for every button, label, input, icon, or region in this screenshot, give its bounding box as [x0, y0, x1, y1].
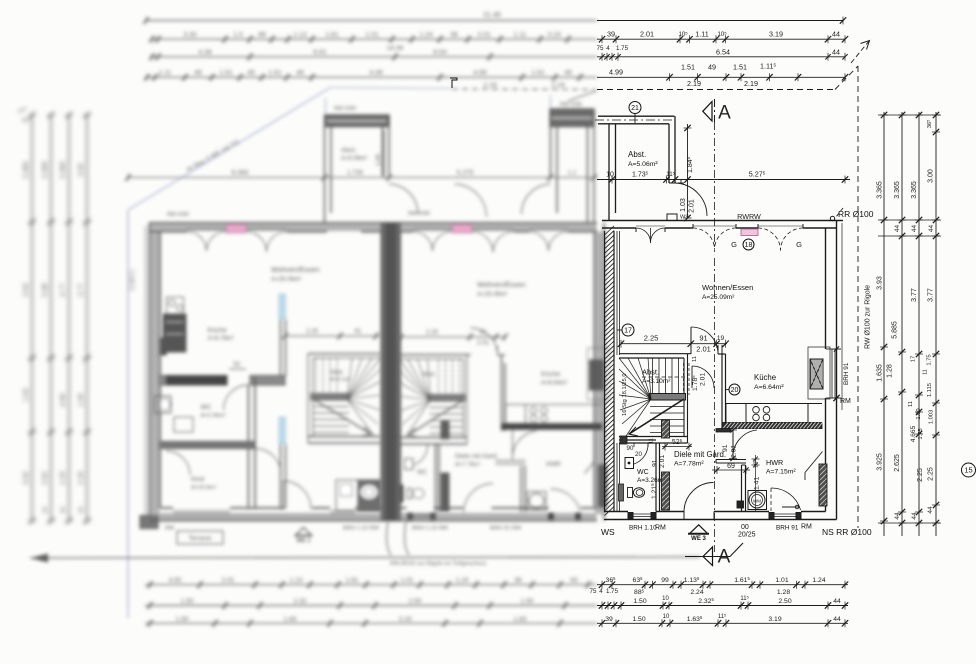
svg-text:WM: WM — [753, 499, 761, 504]
svg-text:6.065: 6.065 — [231, 170, 248, 177]
svg-text:44: 44 — [832, 47, 840, 56]
svg-text:5.275: 5.275 — [456, 170, 473, 177]
chimney chamfer — [805, 452, 823, 473]
svg-text:75: 75 — [597, 45, 604, 52]
svg-text:49: 49 — [708, 63, 716, 72]
svg-text:44: 44 — [78, 506, 85, 513]
kitchen wall (Wohnen|Kueche) — [721, 354, 723, 430]
wall notch above top wall — [667, 214, 677, 221]
svg-text:4: 4 — [606, 45, 610, 52]
dim chain row0 total, top — [597, 17, 846, 25]
left unit WC cluster at party wall — [336, 480, 358, 511]
installation wall bar WC — [619, 484, 624, 501]
duplex left wall — [149, 223, 151, 521]
svg-text:91: 91 — [699, 334, 707, 343]
svg-text:11: 11 — [649, 438, 655, 444]
svg-text:A=2.96m²: A=2.96m² — [201, 413, 226, 419]
svg-text:BRH 1.10 RM: BRH 1.10 RM — [412, 526, 448, 532]
svg-text:2.01: 2.01 — [477, 32, 490, 39]
svg-text:3.77: 3.77 — [911, 288, 918, 302]
svg-text:19: 19 — [717, 335, 725, 342]
right dim chain 4 — [923, 112, 941, 536]
left unit hall walls — [248, 385, 250, 508]
svg-text:1.00: 1.00 — [78, 393, 85, 407]
svg-text:1.50: 1.50 — [632, 616, 645, 623]
left unit kitchen — [167, 297, 184, 314]
svg-text:52: 52 — [234, 361, 241, 368]
svg-text:2.24: 2.24 — [690, 589, 703, 596]
svg-text:3.92: 3.92 — [23, 471, 30, 485]
svg-text:2.19: 2.19 — [744, 79, 758, 88]
svg-text:20/25: 20/25 — [738, 532, 756, 539]
svg-text:1.003: 1.003 — [929, 410, 935, 425]
svg-text:1.75: 1.75 — [918, 428, 924, 439]
right dim chain 2 — [887, 112, 907, 536]
svg-text:49: 49 — [296, 70, 304, 77]
svg-text:2.19: 2.19 — [551, 82, 564, 89]
toilet — [628, 488, 633, 498]
svg-text:5.88: 5.88 — [42, 283, 49, 297]
left unit annex — [325, 115, 390, 127]
right outer wall — [836, 221, 838, 520]
thin sill lines in top wall openings — [636, 225, 665, 227]
dim 69 — [712, 463, 750, 474]
top connector ticks of right chains — [878, 114, 941, 116]
svg-text:RR Ø100: RR Ø100 — [838, 209, 874, 219]
left wall bottom pier — [140, 516, 158, 529]
svg-text:6.91: 6.91 — [313, 49, 326, 56]
svg-text:2.01: 2.01 — [640, 30, 654, 39]
bottom dim row 2 — [597, 595, 848, 609]
svg-text:BRH 91 RM: BRH 91 RM — [490, 526, 521, 532]
svg-text:11: 11 — [692, 356, 698, 362]
svg-text:A=7.15m²: A=7.15m² — [766, 469, 796, 476]
svg-text:1.115: 1.115 — [927, 383, 933, 397]
svg-text:2.01: 2.01 — [700, 373, 707, 386]
terrace door opening C dashed arcs — [757, 224, 759, 228]
small dims 75/4/1.75 below row A — [597, 45, 629, 52]
svg-text:2.50: 2.50 — [778, 598, 791, 605]
svg-text:RM 0/90: RM 0/90 — [167, 212, 189, 218]
svg-text:2.25: 2.25 — [60, 471, 67, 485]
svg-text:1.01: 1.01 — [401, 577, 414, 584]
svg-text:Abst.: Abst. — [330, 369, 344, 376]
circled 17 — [622, 324, 634, 336]
svg-text:1.50: 1.50 — [181, 598, 194, 605]
svg-text:RM: RM — [165, 526, 174, 532]
stove 4 plates — [746, 404, 808, 423]
stair winder fan — [619, 358, 651, 436]
svg-text:3.00: 3.00 — [928, 169, 935, 183]
svg-text:44: 44 — [911, 225, 918, 233]
right-unit annex — [550, 109, 594, 127]
svg-text:17: 17 — [911, 356, 917, 362]
right dim chain 1 — [877, 112, 889, 536]
bottom dim row 1 — [590, 576, 849, 596]
svg-text:9.365 5: 9.365 5 — [129, 269, 136, 290]
bottom window 2 (HWR door) — [769, 513, 801, 515]
WE 3 marker — [690, 525, 707, 533]
svg-text:99: 99 — [661, 577, 669, 584]
blurry top dim rows — [143, 12, 597, 89]
svg-text:WC: WC — [417, 470, 428, 476]
svg-text:2.50: 2.50 — [409, 598, 422, 605]
svg-text:2.32: 2.32 — [294, 598, 307, 605]
svg-text:91: 91 — [480, 330, 487, 336]
svg-text:2.01: 2.01 — [222, 577, 235, 584]
stair treads upper flight (dashed=above cut) — [642, 354, 689, 443]
svg-text:Abst.: Abst. — [642, 368, 659, 377]
drain circle + RR100 at top right corner — [830, 216, 834, 220]
svg-text:90: 90 — [627, 445, 634, 452]
svg-text:1.63: 1.63 — [514, 616, 527, 623]
svg-text:3.365: 3.365 — [911, 181, 918, 199]
svg-text:2.62: 2.62 — [42, 471, 49, 485]
dashed site boundary with NE arrow — [597, 41, 870, 529]
svg-text:36: 36 — [514, 577, 522, 584]
svg-text:3.19: 3.19 — [547, 32, 560, 39]
svg-text:A=25.09m²: A=25.09m² — [477, 291, 507, 298]
svg-text:2.25: 2.25 — [426, 329, 439, 336]
svg-text:99: 99 — [258, 32, 266, 39]
dim 2.25/91/19 + 2.01 — [618, 334, 729, 354]
svg-text:3.365: 3.365 — [23, 161, 30, 179]
main top wall — [602, 220, 843, 222]
svg-text:BRH 1.10 RM: BRH 1.10 RM — [343, 526, 379, 532]
svg-text:2.01: 2.01 — [696, 345, 711, 354]
party wall hatched — [605, 226, 620, 516]
svg-text:44: 44 — [928, 225, 935, 233]
Wohnen-Diele door leaf + arc — [690, 327, 692, 354]
right unit mid dim line — [397, 329, 508, 347]
svg-text:1.63: 1.63 — [23, 388, 30, 402]
long bottom leader arrow — [30, 557, 700, 558]
svg-text:4x: 4x — [22, 117, 30, 124]
dim line y178 (10/1.735/115/5.275) — [597, 170, 850, 184]
svg-text:2.25: 2.25 — [78, 471, 85, 485]
svg-text:3.365: 3.365 — [894, 181, 901, 199]
svg-text:44: 44 — [911, 512, 918, 520]
wall grey fills — [150, 224, 597, 232]
washing machine — [748, 491, 767, 510]
svg-text:3.19: 3.19 — [399, 616, 412, 623]
svg-text:WE 3: WE 3 — [691, 536, 706, 542]
svg-text:3.365: 3.365 — [42, 161, 49, 179]
svg-text:44: 44 — [894, 225, 901, 233]
svg-text:3.19: 3.19 — [768, 616, 781, 623]
svg-text:1.50: 1.50 — [633, 598, 646, 605]
svg-text:1.0: 1.0 — [233, 32, 243, 39]
svg-text:Abst.: Abst. — [422, 371, 436, 378]
garderobe niche wall — [716, 459, 746, 461]
svg-text:1.11: 1.11 — [159, 70, 172, 77]
door under stair + arc — [691, 366, 693, 388]
dim chain row B (6.54/44) — [597, 47, 848, 61]
svg-text:Diele mit Gard.: Diele mit Gard. — [455, 453, 499, 460]
svg-text:2.25: 2.25 — [306, 328, 319, 335]
svg-text:1.13: 1.13 — [290, 577, 303, 584]
small corner mark — [450, 78, 457, 88]
wall below stair (Abst/WC) — [619, 436, 688, 438]
svg-text:HWR: HWR — [766, 458, 783, 467]
svg-text:10: 10 — [662, 596, 669, 602]
left unit door arcs — [224, 385, 249, 410]
left unit wall under kitchen (hatched) — [160, 376, 227, 386]
svg-text:RM 0/90: RM 0/90 — [334, 106, 356, 112]
svg-text:14.36: 14.36 — [387, 45, 404, 52]
roller shutter box (pink) — [741, 229, 758, 236]
drain pipes under wall — [387, 521, 391, 555]
svg-text:Wohnen/Essen: Wohnen/Essen — [271, 265, 320, 274]
svg-text:3.93: 3.93 — [23, 283, 30, 297]
terrace label box — [177, 531, 223, 544]
svg-text:1.61: 1.61 — [346, 577, 359, 584]
svg-text:A=7.78m²: A=7.78m² — [455, 462, 480, 468]
svg-text:A=5.06m²: A=5.06m² — [628, 161, 658, 168]
svg-text:2.19: 2.19 — [483, 82, 496, 89]
svg-text:WS.: WS. — [680, 215, 691, 221]
WE marker left unit — [296, 528, 311, 536]
svg-text:1.50: 1.50 — [176, 616, 189, 623]
svg-text:39: 39 — [607, 30, 615, 39]
svg-text:2.25: 2.25 — [644, 334, 659, 343]
circled 15 — [962, 463, 976, 477]
stair treads lower flight — [650, 407, 684, 433]
svg-text:RW Ø100 zur Rigole im Tiefgesc: RW Ø100 zur Rigole im Tiefgeschoss — [390, 561, 486, 567]
svg-text:1.11: 1.11 — [514, 32, 527, 39]
svg-text:91: 91 — [722, 444, 729, 452]
svg-text:A=3.1m²: A=3.1m² — [330, 377, 351, 383]
svg-text:63: 63 — [570, 577, 578, 584]
WC door + arc — [633, 443, 635, 447]
duplex top wall — [150, 222, 598, 224]
svg-text:RM: RM — [840, 398, 851, 405]
svg-text:A: A — [718, 547, 731, 568]
svg-text:1.635: 1.635 — [877, 364, 884, 382]
svg-text:Wohnen/Essen: Wohnen/Essen — [702, 283, 753, 292]
svg-text:BRH 91: BRH 91 — [776, 525, 799, 532]
svg-text:1.41: 1.41 — [754, 477, 761, 490]
svg-text:17: 17 — [624, 328, 632, 335]
svg-text:3.77: 3.77 — [60, 283, 67, 297]
svg-text:WC: WC — [201, 404, 212, 411]
fridge / tall unit — [808, 347, 830, 399]
left unit installation bar — [160, 338, 167, 355]
svg-text:WC: WC — [637, 469, 649, 476]
svg-text:5.885: 5.885 — [892, 321, 899, 339]
svg-text:20: 20 — [635, 451, 642, 458]
circled 21 position number — [629, 102, 641, 114]
garderobe bars — [662, 420, 670, 438]
right unit right wall (at sharp boundary) — [594, 232, 596, 508]
svg-text:1.24: 1.24 — [812, 577, 825, 584]
top wall window arcs right unit — [413, 232, 433, 251]
svg-text:1.01: 1.01 — [365, 32, 378, 39]
svg-text:49: 49 — [247, 70, 255, 77]
svg-text:3.30: 3.30 — [183, 32, 196, 39]
svg-text:G: G — [731, 240, 737, 249]
svg-text:1.63: 1.63 — [284, 616, 297, 623]
svg-text:2.01: 2.01 — [731, 445, 738, 458]
svg-text:1.24: 1.24 — [456, 577, 469, 584]
svg-text:1.75: 1.75 — [927, 354, 933, 365]
svg-text:Terrasse: Terrasse — [188, 536, 212, 542]
svg-text:3.365: 3.365 — [60, 161, 67, 179]
stair enclosure top wall + door to Wohnen — [619, 353, 691, 355]
svg-text:75: 75 — [590, 588, 597, 595]
svg-text:4.50: 4.50 — [169, 577, 182, 584]
svg-text:A=7.78m²: A=7.78m² — [674, 461, 704, 468]
svg-text:1.84: 1.84 — [375, 153, 382, 166]
bottom window 1 (WC) — [628, 513, 656, 515]
dim 52.5 — [662, 438, 692, 451]
svg-text:15: 15 — [964, 466, 972, 475]
floor drain block — [737, 501, 744, 508]
svg-text:6.54: 6.54 — [716, 47, 730, 56]
annex left wall — [608, 124, 610, 220]
svg-text:4.99: 4.99 — [473, 70, 486, 77]
svg-text:49: 49 — [564, 70, 572, 77]
washbasin — [625, 458, 634, 469]
svg-text:39: 39 — [605, 616, 613, 623]
svg-text:3.93: 3.93 — [877, 276, 884, 290]
svg-text:1.28: 1.28 — [887, 364, 894, 378]
svg-text:RWRW: RWRW — [737, 212, 761, 221]
duplex bottom wall — [150, 520, 598, 522]
svg-text:Küche: Küche — [541, 371, 560, 378]
party wall dark band — [381, 223, 401, 521]
svg-text:36: 36 — [450, 32, 458, 39]
svg-text:1.28: 1.28 — [777, 589, 790, 596]
stair landing bar — [649, 394, 686, 401]
svg-text:1.01: 1.01 — [775, 577, 788, 584]
svg-text:NS RR Ø100: NS RR Ø100 — [822, 527, 872, 537]
blurry bottom dim rows — [145, 577, 597, 627]
svg-text:A=10.9m²: A=10.9m² — [191, 485, 216, 491]
top wall window opening A with solid arcs — [635, 228, 637, 232]
svg-text:Kind: Kind — [191, 476, 204, 483]
svg-text:1.50: 1.50 — [521, 598, 534, 605]
svg-text:1.51: 1.51 — [268, 70, 281, 77]
svg-text:A=5.06m²: A=5.06m² — [341, 156, 367, 162]
site boundary diagonal + text — [128, 87, 331, 210]
svg-text:20: 20 — [731, 387, 739, 394]
svg-text:1.1: 1.1 — [568, 170, 577, 177]
bottom outer wall — [604, 519, 837, 521]
svg-text:3.925: 3.925 — [877, 453, 884, 471]
svg-text:44: 44 — [833, 598, 841, 605]
svg-text:3.00: 3.00 — [78, 163, 85, 177]
svg-text:RW Ø100 zur Rigole: RW Ø100 zur Rigole — [865, 285, 872, 349]
right unit walls and fixtures — [398, 184, 610, 513]
svg-text:1.51: 1.51 — [733, 63, 747, 72]
vertical dims 1.03 / 2.01 at annex door — [680, 180, 696, 222]
svg-text:2.25: 2.25 — [928, 467, 935, 481]
svg-text:16 Stg 18,1/25,0: 16 Stg 18,1/25,0 — [622, 373, 628, 416]
svg-text:2.19: 2.19 — [687, 79, 701, 88]
svg-text:2.01: 2.01 — [689, 199, 696, 213]
svg-text:4.66: 4.66 — [60, 393, 67, 407]
svg-text:A=6.64m²: A=6.64m² — [541, 381, 567, 387]
left unit mid dim line — [282, 328, 381, 340]
left vertical dim chains — [18, 108, 91, 524]
svg-text:Küche: Küche — [754, 373, 776, 382]
svg-text:1.735: 1.735 — [347, 170, 363, 177]
svg-text:4.665: 4.665 — [910, 425, 917, 442]
svg-text:3.19: 3.19 — [769, 30, 783, 39]
section line A (dash-dot vertical) — [714, 122, 716, 252]
svg-text:3.77: 3.77 — [928, 288, 935, 302]
svg-text:18: 18 — [745, 242, 753, 249]
svg-text:RM: RM — [655, 525, 666, 532]
svg-text:10: 10 — [663, 614, 670, 620]
svg-text:2.625: 2.625 — [894, 454, 901, 472]
svg-text:3.365: 3.365 — [877, 181, 884, 199]
svg-text:BRH 1.10: BRH 1.10 — [629, 525, 657, 532]
bottom dim row 3 — [597, 613, 848, 627]
svg-text:1.00: 1.00 — [916, 408, 922, 419]
dim chain row A (39/2.01/10.5/1.11/10.5/3.19/44) — [597, 30, 848, 44]
svg-text:RM 0/90: RM 0/90 — [560, 102, 582, 108]
svg-text:4.38: 4.38 — [198, 49, 211, 56]
annex right wall — [668, 124, 670, 183]
svg-text:Wohnen/Essen: Wohnen/Essen — [477, 280, 526, 289]
entrance door opening + arc — [683, 512, 685, 520]
HWR left wall — [741, 465, 743, 512]
kitchen counter — [726, 404, 746, 423]
svg-text:RM 0/90: RM 0/90 — [408, 211, 430, 217]
svg-text:1.61: 1.61 — [325, 32, 338, 39]
svg-text:1.24: 1.24 — [419, 32, 432, 39]
svg-text:91: 91 — [355, 329, 362, 335]
stair walk line + arrow — [629, 399, 684, 434]
vertical dim 1.845 — [684, 124, 695, 183]
svg-text:21.45: 21.45 — [483, 12, 501, 19]
svg-text:A: A — [718, 103, 731, 124]
HWR back door arc — [770, 488, 772, 511]
right unit (blurry) stair — [399, 355, 471, 444]
WC right wall — [655, 443, 657, 512]
svg-text:A=9.78m²: A=9.78m² — [208, 336, 234, 342]
svg-text:4: 4 — [599, 588, 603, 595]
svg-text:44: 44 — [833, 616, 841, 623]
svg-text:A=6.64m²: A=6.64m² — [754, 384, 784, 391]
svg-text:Abst.: Abst. — [628, 150, 646, 159]
svg-text:2.01: 2.01 — [477, 340, 490, 347]
svg-text:1.51: 1.51 — [531, 70, 544, 77]
right dim chain 3 — [908, 112, 924, 536]
section marker A top — [703, 99, 731, 124]
kitchen-HWR hatched wall — [722, 423, 823, 429]
svg-text:2.01: 2.01 — [659, 455, 666, 468]
svg-text:A=3.10m²: A=3.10m² — [642, 378, 671, 385]
annex top wall — [598, 115, 675, 117]
top wall window arcs left unit — [187, 232, 207, 251]
svg-text:69: 69 — [727, 463, 735, 470]
svg-text:1.75: 1.75 — [606, 588, 619, 595]
svg-text:21: 21 — [631, 105, 639, 112]
pink window marks top wall — [227, 225, 247, 234]
left unit stair (mirrored) — [308, 354, 381, 443]
cyan plumbing marks — [279, 294, 286, 319]
kitchen door leaf + arc — [732, 429, 734, 459]
annex door + arc — [675, 183, 707, 216]
svg-text:6.54: 6.54 — [433, 49, 446, 56]
svg-text:HWR: HWR — [546, 461, 561, 468]
svg-text:44: 44 — [60, 506, 67, 513]
right wall window (BRH 91) — [831, 349, 833, 398]
svg-text:1.11: 1.11 — [695, 30, 708, 39]
